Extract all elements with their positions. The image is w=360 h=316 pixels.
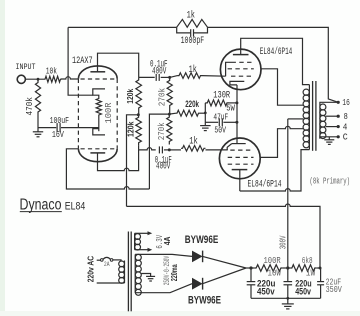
svg-text:INPUT: INPUT bbox=[16, 62, 36, 72]
mains wire to primary bbox=[113, 259, 122, 261]
feedback wire to V1a cathode bbox=[68, 27, 93, 95]
B+ center tap vertical bbox=[287, 119, 289, 268]
wire C1 to cathode node bbox=[61, 127, 99, 129]
svg-text:450v: 450v bbox=[257, 286, 275, 296]
wire 130R to cathode line bbox=[229, 102, 237, 104]
wire 220k to bias node bbox=[200, 112, 206, 114]
V3 cathode hook bbox=[227, 144, 232, 150]
tube V1 envelope right side dashed bbox=[116, 79, 118, 149]
secondary 4 ohm tap wire bbox=[326, 126, 338, 128]
svg-text:120k: 120k bbox=[125, 89, 135, 104]
svg-text:1k: 1k bbox=[189, 64, 197, 75]
svg-text:1000pF: 1000pF bbox=[181, 35, 205, 46]
resistor R10 1k upper bbox=[178, 73, 203, 79]
resistor R11 1k lower bbox=[181, 146, 206, 152]
ground GND2 bbox=[200, 125, 211, 127]
B+ rail to PSU with hop bbox=[127, 204, 321, 268]
node B+ mid junction dot bbox=[137, 113, 140, 116]
resistor R9 130R bbox=[205, 100, 229, 106]
svg-text:C: C bbox=[343, 133, 349, 143]
svg-text:16: 16 bbox=[342, 98, 349, 108]
capacitor C1 100uF bbox=[56, 123, 58, 132]
PT HV winding bbox=[134, 254, 136, 292]
svg-text:130R: 130R bbox=[213, 90, 230, 101]
V1b plate wire with hop bbox=[98, 150, 139, 171]
wire R6 to floating rail bbox=[169, 109, 171, 115]
V3 plate rail to OPT bottom with hop bbox=[240, 150, 310, 191]
svg-text:50V: 50V bbox=[214, 124, 226, 135]
6.3V top wire arrow bbox=[135, 232, 148, 234]
svg-text:220ma: 220ma bbox=[170, 264, 179, 281]
wire ground node to C1 bbox=[38, 127, 56, 129]
V1a plate bar bbox=[90, 71, 105, 73]
tube V2 envelope bbox=[220, 49, 261, 90]
svg-text:400V: 400V bbox=[156, 160, 170, 171]
V3 plate bar bbox=[232, 169, 248, 171]
svg-text:300V: 300V bbox=[278, 235, 288, 249]
ground GND4 center tap bbox=[146, 275, 155, 277]
V2 g2 dashed bbox=[228, 68, 254, 70]
wire C4 to cathode line bbox=[223, 121, 237, 123]
V2 cathode bbox=[230, 81, 244, 85]
wire C3 to grid node bbox=[164, 149, 169, 151]
tube V1 envelope left side dashed bbox=[77, 79, 79, 149]
resistor R7 270k lower bbox=[167, 114, 172, 144]
6.3V bottom wire arrow bbox=[135, 249, 148, 251]
input jack J1 bbox=[17, 75, 25, 83]
OPT center tap B+ wire bbox=[288, 118, 304, 120]
resistor R8 220k bbox=[169, 112, 176, 115]
OPT core bbox=[312, 81, 314, 151]
PT primary winding bbox=[124, 261, 126, 284]
svg-text:100uF: 100uF bbox=[50, 115, 70, 126]
V3 g2 wire to UL tap with hop bbox=[260, 126, 303, 157]
ground GND3 bbox=[324, 139, 334, 141]
D1 cathode wire bbox=[203, 256, 246, 268]
wire 470k to ground bbox=[37, 114, 39, 132]
svg-text:4: 4 bbox=[343, 123, 348, 133]
V3 cathode bbox=[232, 143, 246, 145]
V2 g3 dashed bbox=[231, 75, 254, 77]
node cathode-130R dot bbox=[235, 101, 238, 104]
wire 100R to 300V node bbox=[282, 267, 290, 269]
svg-text:EL84/6P14: EL84/6P14 bbox=[248, 179, 282, 190]
V2 g1 hook bbox=[226, 62, 232, 76]
V1b plate node line with hop over divider wire bbox=[139, 148, 156, 150]
tube V3 envelope bbox=[219, 138, 260, 179]
feedback wire left bbox=[68, 26, 177, 28]
svg-text:270k: 270k bbox=[157, 87, 168, 106]
svg-text:6k8: 6k8 bbox=[302, 256, 313, 266]
diode D2 bbox=[192, 278, 203, 290]
V2 g1 dashed bbox=[232, 61, 254, 63]
HV center tap bbox=[141, 274, 150, 277]
node lower grid junction dot bbox=[168, 148, 171, 151]
cathode line V2 to V3 bbox=[236, 85, 238, 144]
node floating junction dot bbox=[168, 113, 171, 116]
secondary 8 ohm tap wire bbox=[326, 115, 338, 117]
tube V1 envelope bottom arc bbox=[78, 149, 117, 162]
V1a grid dashed line bbox=[81, 78, 116, 80]
svg-text:10W: 10W bbox=[268, 268, 282, 278]
svg-text:(8k Primary): (8k Primary) bbox=[310, 177, 351, 187]
capacitor C7 220u bbox=[287, 268, 289, 281]
node ground rail dot bbox=[286, 297, 289, 300]
tap dot 4 bbox=[337, 125, 340, 128]
resistor R2 470k bbox=[35, 81, 40, 115]
mains top wire bbox=[97, 259, 101, 261]
ground GND5 bbox=[282, 303, 294, 305]
svg-text:270k: 270k bbox=[156, 122, 167, 140]
svg-text:BYW96E: BYW96E bbox=[185, 234, 219, 246]
V1a cathode bbox=[93, 89, 105, 97]
fuse F1 2A bbox=[101, 259, 104, 262]
wire 6k8 to B+ node bbox=[316, 267, 320, 269]
wire R11 to V3 grid bbox=[206, 149, 228, 151]
capacitor C8 22uF bbox=[320, 268, 322, 281]
svg-text:12AX7: 12AX7 bbox=[72, 55, 93, 66]
wire R4 to B+ node bbox=[138, 111, 140, 115]
svg-text:1k: 1k bbox=[187, 10, 195, 21]
svg-text:1W: 1W bbox=[306, 268, 316, 278]
tap dot C bbox=[337, 135, 340, 138]
tap dot 16 bbox=[337, 101, 340, 104]
svg-text:Dynaco: Dynaco bbox=[20, 197, 62, 214]
svg-text:10k: 10k bbox=[46, 66, 57, 77]
tube V1 envelope top arc bbox=[78, 66, 117, 79]
svg-text:220v AC: 220v AC bbox=[87, 256, 96, 283]
floating rail to V1b grid bbox=[149, 114, 169, 189]
secondary 16 ohm tap wire bbox=[320, 102, 338, 104]
svg-text:1k: 1k bbox=[189, 135, 198, 146]
node B+ out junction dot bbox=[319, 267, 322, 270]
bias node vertical bbox=[204, 103, 206, 126]
tap dot 8 bbox=[337, 115, 340, 118]
wire bias node to C4 bbox=[205, 121, 218, 123]
resistor R6 270k upper bbox=[167, 77, 172, 108]
mains bottom wire bbox=[97, 282, 125, 284]
svg-text:EL84/6P14: EL84/6P14 bbox=[260, 46, 293, 57]
secondary common tap wire bbox=[320, 137, 338, 139]
svg-text:400V: 400V bbox=[152, 65, 166, 76]
svg-text:100R: 100R bbox=[264, 256, 282, 266]
resistor R12 1k feedback bbox=[177, 19, 208, 27]
svg-text:BYW96E: BYW96E bbox=[188, 294, 221, 306]
svg-text:450v: 450v bbox=[295, 286, 311, 296]
HV bottom wire to D2 bbox=[135, 284, 192, 293]
V2 g2 wire to UL tap bbox=[261, 69, 303, 105]
wire grid V1a with hop over feedback bbox=[61, 77, 78, 79]
wire R10 to grid hook bbox=[202, 75, 226, 78]
svg-text:47uF: 47uF bbox=[213, 112, 228, 123]
bias node junction dot bbox=[204, 112, 207, 115]
svg-text:16V: 16V bbox=[52, 129, 64, 140]
node 300V junction dot bbox=[286, 266, 289, 269]
svg-text:470k: 470k bbox=[24, 97, 35, 116]
V3 g2 dashed bbox=[228, 156, 254, 158]
resistor R4 120k upper bbox=[136, 77, 142, 110]
HV top wire to D1 bbox=[135, 254, 192, 256]
resistor R3 100R bbox=[96, 97, 101, 117]
capacitor C3 0.1uF lower bbox=[158, 146, 160, 153]
node A junction dot bbox=[37, 78, 40, 81]
V1b grid return wire with hop bbox=[66, 149, 149, 189]
V1b plate bar bbox=[90, 152, 105, 154]
wire 1k to V2 grid bbox=[170, 76, 178, 78]
V2 plate bar bbox=[233, 54, 249, 56]
svg-text:4A: 4A bbox=[163, 236, 172, 245]
wire plate node to C2 bbox=[139, 76, 155, 78]
capacitor C4 47uF bbox=[218, 118, 220, 126]
wire R5 bottom to plate node bbox=[138, 145, 140, 150]
secondary ground stub bbox=[328, 137, 330, 140]
PSU ground rail bbox=[251, 297, 321, 299]
capacitor C6 220u bbox=[250, 268, 252, 281]
V1b cathode bbox=[93, 129, 105, 135]
wire C2 to grid node bbox=[161, 76, 170, 78]
V2 plate wire to OPT top bbox=[241, 38, 310, 84]
V3 plate wire bbox=[239, 170, 241, 191]
V1a plate wire bbox=[98, 53, 139, 77]
feedback cap branch left bbox=[177, 27, 191, 33]
svg-text:2A: 2A bbox=[104, 261, 110, 268]
resistor R14 6k8 bbox=[290, 265, 316, 272]
svg-text:220k: 220k bbox=[185, 99, 199, 109]
wire grid node to 1k lower bbox=[169, 149, 181, 151]
svg-text:100R: 100R bbox=[103, 102, 114, 123]
feedback wire right bbox=[208, 27, 339, 102]
ground stub bbox=[287, 298, 289, 303]
V3 g3 dashed bbox=[228, 163, 254, 165]
PT 6.3V winding bbox=[134, 233, 136, 249]
OPT primary winding bbox=[308, 85, 310, 150]
resistor R1 10k bbox=[44, 76, 62, 82]
wire B+ rail stub bbox=[127, 115, 139, 207]
svg-text:120k: 120k bbox=[126, 121, 136, 137]
wire input to node bbox=[25, 78, 44, 80]
node rectifier junction dot bbox=[249, 266, 252, 269]
D2 cathode wire bbox=[203, 268, 246, 284]
V3 g1 dashed bbox=[230, 149, 253, 151]
feedback cap branch right bbox=[194, 27, 208, 33]
V1b grid dashed line bbox=[81, 148, 116, 150]
svg-text:EL84: EL84 bbox=[65, 200, 86, 212]
ground GND1 bbox=[33, 131, 43, 133]
svg-text:350V: 350V bbox=[326, 285, 343, 295]
PT core bbox=[127, 232, 129, 312]
wire 100R to bottom cathode node bbox=[98, 117, 100, 132]
node upper grid junction dot bbox=[168, 76, 171, 79]
capacitor C5 1000pF bbox=[190, 29, 192, 36]
resistor R13 100R bbox=[255, 265, 283, 272]
capacitor C2 0.1uF upper bbox=[155, 74, 157, 81]
wire junction bbox=[246, 267, 255, 269]
svg-text:8: 8 bbox=[344, 112, 348, 122]
diode D1 bbox=[192, 251, 203, 263]
OPT secondary winding bbox=[319, 104, 321, 139]
node cathode-47uF dot bbox=[235, 121, 238, 124]
resistor R5 120k lower bbox=[136, 115, 142, 145]
